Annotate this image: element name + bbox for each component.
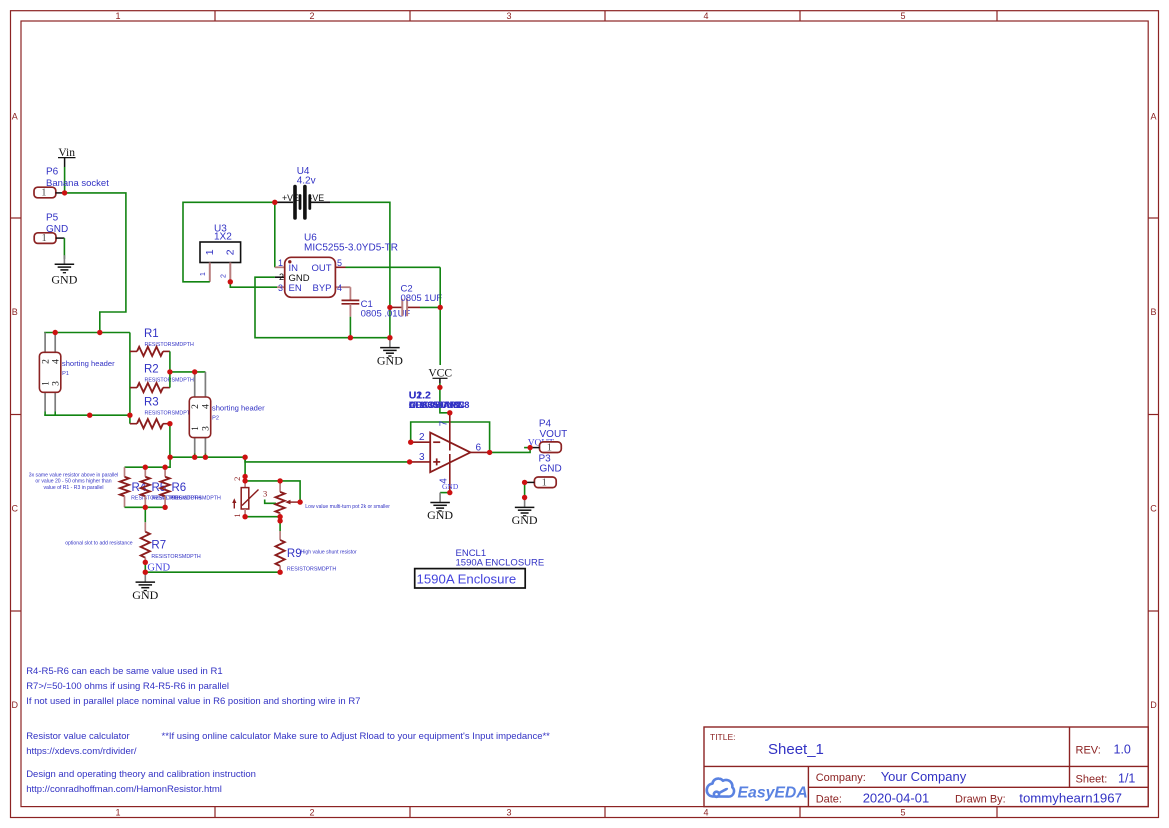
wire U6 GND to ground net (255, 277, 390, 338)
svg-text:5: 5 (900, 11, 905, 21)
svg-text:shorting header: shorting header (212, 404, 265, 413)
ground for P5 (63, 255, 65, 264)
junction (143, 465, 148, 470)
net flag VCC (428, 366, 452, 378)
svg-text:+VE: +VE (282, 193, 299, 203)
EasyEDA logo (707, 779, 734, 797)
pin 3 (410, 461, 431, 463)
junction (192, 455, 197, 460)
junction (447, 410, 452, 415)
svg-text:R6: R6 (172, 482, 187, 494)
svg-text:1/1: 1/1 (1118, 772, 1135, 786)
svg-text:0805 1UF: 0805 1UF (401, 293, 443, 304)
svg-text:EN: EN (289, 283, 302, 294)
wire trimmer wiper (265, 500, 276, 504)
svg-text:P1: P1 (62, 371, 69, 377)
resistor R6 (164, 467, 166, 477)
resistor R5 (144, 467, 146, 477)
node jog to op-amp (245, 457, 410, 462)
svg-text:optional slot to add resistanc: optional slot to add resistance (65, 540, 133, 546)
ground P3 (524, 498, 526, 507)
junction (167, 369, 172, 374)
junction (437, 385, 442, 390)
ground op-amp (439, 493, 441, 502)
svg-text:2: 2 (41, 359, 51, 364)
header P1 shorting header (44, 333, 46, 353)
svg-text:1: 1 (115, 807, 120, 817)
svg-text:1590A ENCLOSURE: 1590A ENCLOSURE (456, 558, 545, 569)
notes text block (26, 666, 550, 795)
header P2 shorting header (194, 372, 196, 397)
junction (242, 455, 247, 460)
svg-text:1: 1 (204, 249, 216, 255)
svg-text:RESISTORSMDPTH: RESISTORSMDPTH (151, 554, 201, 560)
pin 7 (449, 413, 451, 451)
junction (272, 200, 277, 205)
wire OUT (346, 266, 441, 268)
svg-text:Date:: Date: (816, 794, 842, 806)
junction (127, 413, 132, 418)
pin 2 (411, 441, 431, 443)
svg-text:R7: R7 (151, 540, 166, 552)
junction (167, 421, 172, 426)
svg-text:GND: GND (540, 463, 562, 474)
svg-text:Banana socket: Banana socket (46, 178, 109, 189)
svg-text:1: 1 (278, 258, 283, 268)
svg-text:3: 3 (278, 283, 283, 293)
op-amp U2 triangle (430, 433, 470, 473)
wire to R9 (279, 517, 281, 531)
title block (704, 727, 1148, 807)
wire battery + down to U6 IN (274, 202, 276, 267)
svg-text:shorting header: shorting header (62, 359, 115, 368)
svg-text:RESISTORSMDPTH: RESISTORSMDPTH (145, 411, 195, 417)
junction (242, 514, 247, 519)
svg-text:RESISTORSMDPTH: RESISTORSMDPTH (145, 342, 195, 348)
svg-text:5: 5 (900, 807, 905, 817)
junction (143, 505, 148, 510)
svg-text:1X2: 1X2 (214, 232, 232, 243)
svg-text:1: 1 (200, 272, 207, 276)
junction (297, 499, 302, 504)
svg-text:R2: R2 (144, 363, 159, 375)
svg-text:If not used in parallel place: If not used in parallel place nominal va… (26, 696, 360, 707)
svg-text:GND: GND (132, 588, 158, 602)
svg-text:1: 1 (232, 513, 242, 517)
svg-text:BYP: BYP (312, 283, 331, 294)
junction (447, 490, 452, 495)
svg-text:GND: GND (377, 353, 403, 367)
svg-text:3: 3 (419, 452, 425, 463)
junction (348, 335, 353, 340)
wire output to P4 (490, 448, 530, 453)
svg-text:Sheet:: Sheet: (1076, 774, 1108, 786)
svg-text:4: 4 (703, 11, 708, 21)
svg-text:RESISTORSMDPTH: RESISTORSMDPTH (172, 496, 222, 502)
pin 4 (449, 454, 451, 493)
junction (487, 450, 492, 455)
svg-text:R7>/=50-100 ohms if using R4-R: R7>/=50-100 ohms if using R4-R5-R6 in pa… (26, 681, 229, 692)
junction dots (53, 190, 533, 575)
svg-text:1: 1 (115, 11, 120, 21)
wire to P2 (170, 371, 206, 373)
junction (407, 459, 412, 464)
wire battery to U3 pin1 (183, 202, 275, 281)
svg-text:3: 3 (202, 426, 212, 431)
svg-text:1590A Enclosure: 1590A Enclosure (417, 572, 517, 587)
svg-text:https://xdevs.com/rdivider/: https://xdevs.com/rdivider/ (26, 746, 137, 757)
junction (87, 413, 92, 418)
svg-text:2: 2 (309, 11, 314, 21)
svg-text:C: C (12, 504, 19, 514)
svg-text:2: 2 (279, 272, 284, 282)
svg-text:2020-04-01: 2020-04-01 (863, 791, 930, 806)
junction (277, 514, 282, 519)
svg-text:1: 1 (547, 442, 552, 453)
svg-text:1: 1 (41, 188, 46, 199)
svg-text:2: 2 (221, 274, 228, 278)
wire pot top to R8 top (245, 481, 300, 502)
wire GND net to R9 (145, 571, 280, 573)
wire net to pot (244, 457, 246, 481)
wire R4-R6 bottom net (125, 506, 166, 508)
resistor R7 (144, 507, 146, 522)
svg-text:GND: GND (442, 482, 459, 491)
junction (242, 474, 247, 479)
junction (162, 465, 167, 470)
svg-text:2: 2 (191, 404, 201, 409)
wire feedback loop (411, 422, 490, 452)
svg-text:3x same value resistor above i: 3x same value resistor above in parallel (29, 472, 118, 478)
svg-text:P6: P6 (46, 167, 59, 178)
svg-text:RESISTORSMDPTH: RESISTORSMDPTH (287, 566, 337, 572)
junction (527, 445, 532, 450)
svg-text:B: B (12, 307, 18, 317)
svg-text:C: C (1150, 504, 1157, 514)
svg-text:1: 1 (542, 477, 547, 488)
wire main divider output net (170, 456, 245, 458)
svg-text:http://conradhoffman.com/Hamon: http://conradhoffman.com/HamonResistor.h… (26, 784, 222, 795)
svg-text:D: D (12, 700, 19, 710)
wire bottom of P1 (44, 412, 46, 416)
junction (277, 478, 282, 483)
svg-text:7: 7 (439, 420, 450, 426)
svg-text:A: A (12, 112, 18, 122)
pot wiper arrow (289, 501, 301, 503)
svg-text:REV:: REV: (1076, 745, 1101, 757)
svg-text:3: 3 (52, 381, 62, 386)
wire P3 to ground (524, 482, 526, 497)
svg-text:2: 2 (419, 432, 425, 443)
svg-text:2: 2 (309, 807, 314, 817)
svg-text:GND: GND (512, 513, 538, 527)
svg-text:A: A (1150, 112, 1156, 122)
capacitor C1 (349, 287, 351, 300)
ground below R7 (144, 572, 146, 581)
junction (162, 505, 167, 510)
svg-text:**If using online calculator M: **If using online calculator Make sure t… (162, 731, 551, 742)
junction (143, 560, 148, 565)
junction (53, 330, 58, 335)
junction (143, 570, 148, 575)
wire R3 to bottom net (169, 424, 171, 458)
junction (167, 455, 172, 460)
pin 6 output (470, 451, 489, 453)
svg-text:4: 4 (337, 283, 342, 293)
svg-text:D: D (1150, 700, 1157, 710)
wire VCC rail (439, 267, 441, 365)
svg-text:6: 6 (476, 442, 482, 453)
svg-text:or value 20 - 50 ohms higher t: or value 20 - 50 ohms higher than (35, 479, 111, 485)
svg-text:4: 4 (52, 359, 62, 364)
svg-text:R9: R9 (287, 548, 302, 560)
svg-text:GND: GND (427, 508, 453, 522)
junction (277, 570, 282, 575)
svg-text:GND: GND (51, 273, 77, 287)
trimmer body (244, 481, 246, 488)
junction (438, 305, 443, 310)
wire R4-R6 top net (125, 457, 171, 467)
wire divider vertical left (129, 333, 131, 424)
resistor R4 (124, 467, 126, 477)
junction (192, 369, 197, 374)
trimmer arrow (233, 502, 235, 509)
wire R1 right (169, 351, 171, 372)
svg-text:4: 4 (202, 404, 212, 409)
svg-text:R3: R3 (144, 397, 159, 409)
capacitor C2 (390, 306, 402, 308)
wire R2 right (169, 372, 171, 388)
svg-text:2: 2 (224, 249, 236, 255)
junction (203, 455, 208, 460)
junction (408, 440, 413, 445)
svg-text:Your Company: Your Company (881, 769, 967, 784)
wire battery - to gnd (330, 202, 390, 337)
svg-text:R4-R5-R6 can each be same valu: R4-R5-R6 can each be same value used in … (26, 666, 222, 677)
wire U3 pin2 to EN (230, 282, 277, 287)
svg-text:P5: P5 (46, 213, 59, 224)
svg-text:TITLE:: TITLE: (710, 732, 736, 742)
svg-text:EasyEDA: EasyEDA (738, 785, 808, 802)
svg-text:1: 1 (191, 426, 201, 431)
junction (242, 478, 247, 483)
svg-text:2: 2 (232, 477, 242, 481)
svg-text:Sheet_1: Sheet_1 (768, 741, 824, 758)
svg-text:3: 3 (263, 488, 267, 498)
svg-text:MIC5255-3.0YD5-TR: MIC5255-3.0YD5-TR (304, 242, 398, 253)
junction (522, 495, 527, 500)
svg-text:B: B (1150, 307, 1156, 317)
svg-text:tommyhearn1967: tommyhearn1967 (1019, 791, 1122, 806)
svg-text:OUT: OUT (311, 263, 331, 274)
wire P5 to ground (63, 238, 65, 259)
potentiometer R8 (279, 481, 281, 492)
svg-text:Company:: Company: (816, 772, 866, 784)
junction (228, 279, 233, 284)
svg-text:P2: P2 (212, 416, 219, 422)
svg-text:1.0: 1.0 (1114, 743, 1131, 757)
svg-text:1: 1 (41, 233, 46, 244)
svg-text:Resistor value calculator: Resistor value calculator (26, 731, 130, 742)
svg-text:1: 1 (41, 381, 51, 386)
svg-text:High value shunt resistor: High value shunt resistor (301, 549, 357, 555)
svg-text:4: 4 (703, 807, 708, 817)
junction (387, 335, 392, 340)
junction (62, 190, 67, 195)
wire P6 to divider (65, 193, 126, 333)
resistor R9 (279, 531, 281, 540)
svg-text:VCC: VCC (428, 367, 452, 379)
svg-text:4.2v: 4.2v (297, 176, 316, 187)
svg-text:3: 3 (506, 807, 511, 817)
wire Vin to P6 (64, 167, 66, 193)
junction (522, 480, 527, 485)
svg-text:Drawn By:: Drawn By: (955, 794, 1006, 806)
wire top of P1 / R1 net (44, 332, 130, 334)
svg-text:5: 5 (337, 258, 342, 268)
svg-text:LT1006CN8: LT1006CN8 (409, 400, 459, 410)
svg-text:R1: R1 (144, 328, 159, 340)
svg-text:Low value multi-turn pot 2k or: Low value multi-turn pot 2k or smaller (305, 504, 390, 510)
svg-text:N8: N8 (458, 400, 470, 410)
wire pot bottom (245, 516, 280, 518)
junction (97, 330, 102, 335)
junction (277, 518, 282, 523)
svg-text:value of R1 - R3 in parallel: value of R1 - R3 in parallel (43, 485, 103, 491)
ground center (389, 338, 391, 347)
svg-text:-VE: -VE (310, 193, 325, 203)
junction (387, 305, 392, 310)
svg-text:Design and operating theory an: Design and operating theory and calibrat… (26, 769, 256, 780)
svg-text:3: 3 (506, 11, 511, 21)
wire op-amp gnd (440, 492, 450, 494)
